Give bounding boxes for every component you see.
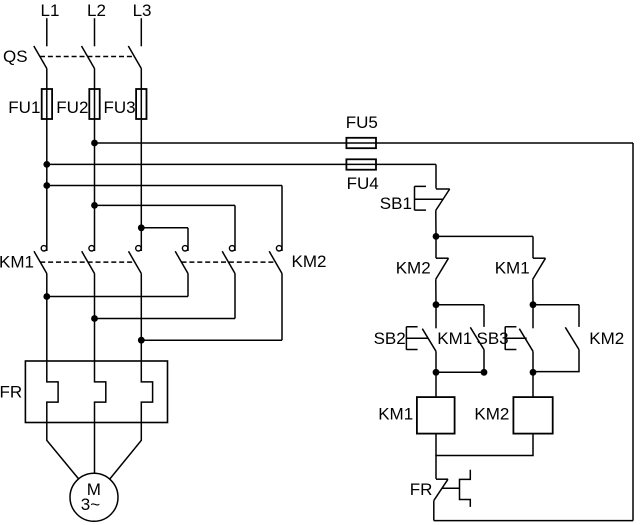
svg-text:QS: QS (3, 47, 28, 66)
svg-text:KM1: KM1 (495, 258, 530, 277)
svg-text:L2: L2 (87, 1, 106, 20)
svg-text:FU3: FU3 (104, 98, 136, 117)
svg-text:KM2: KM2 (292, 252, 327, 271)
svg-text:L3: L3 (133, 1, 152, 20)
svg-text:FU1: FU1 (8, 98, 40, 117)
svg-text:KM2: KM2 (589, 329, 624, 348)
svg-text:FR: FR (410, 480, 433, 499)
svg-text:SB1: SB1 (380, 194, 412, 213)
svg-text:KM2: KM2 (474, 405, 509, 424)
svg-text:FU4: FU4 (347, 174, 379, 193)
svg-text:3~: 3~ (81, 495, 100, 514)
svg-text:FU5: FU5 (346, 113, 378, 132)
svg-text:FR: FR (0, 383, 22, 402)
svg-text:SB3: SB3 (477, 329, 509, 348)
svg-text:KM1: KM1 (0, 253, 34, 272)
svg-text:L1: L1 (41, 1, 60, 20)
svg-text:FU2: FU2 (56, 98, 88, 117)
svg-text:SB2: SB2 (374, 329, 406, 348)
svg-text:KM1: KM1 (437, 329, 472, 348)
svg-text:KM1: KM1 (378, 405, 413, 424)
svg-text:KM2: KM2 (396, 258, 431, 277)
